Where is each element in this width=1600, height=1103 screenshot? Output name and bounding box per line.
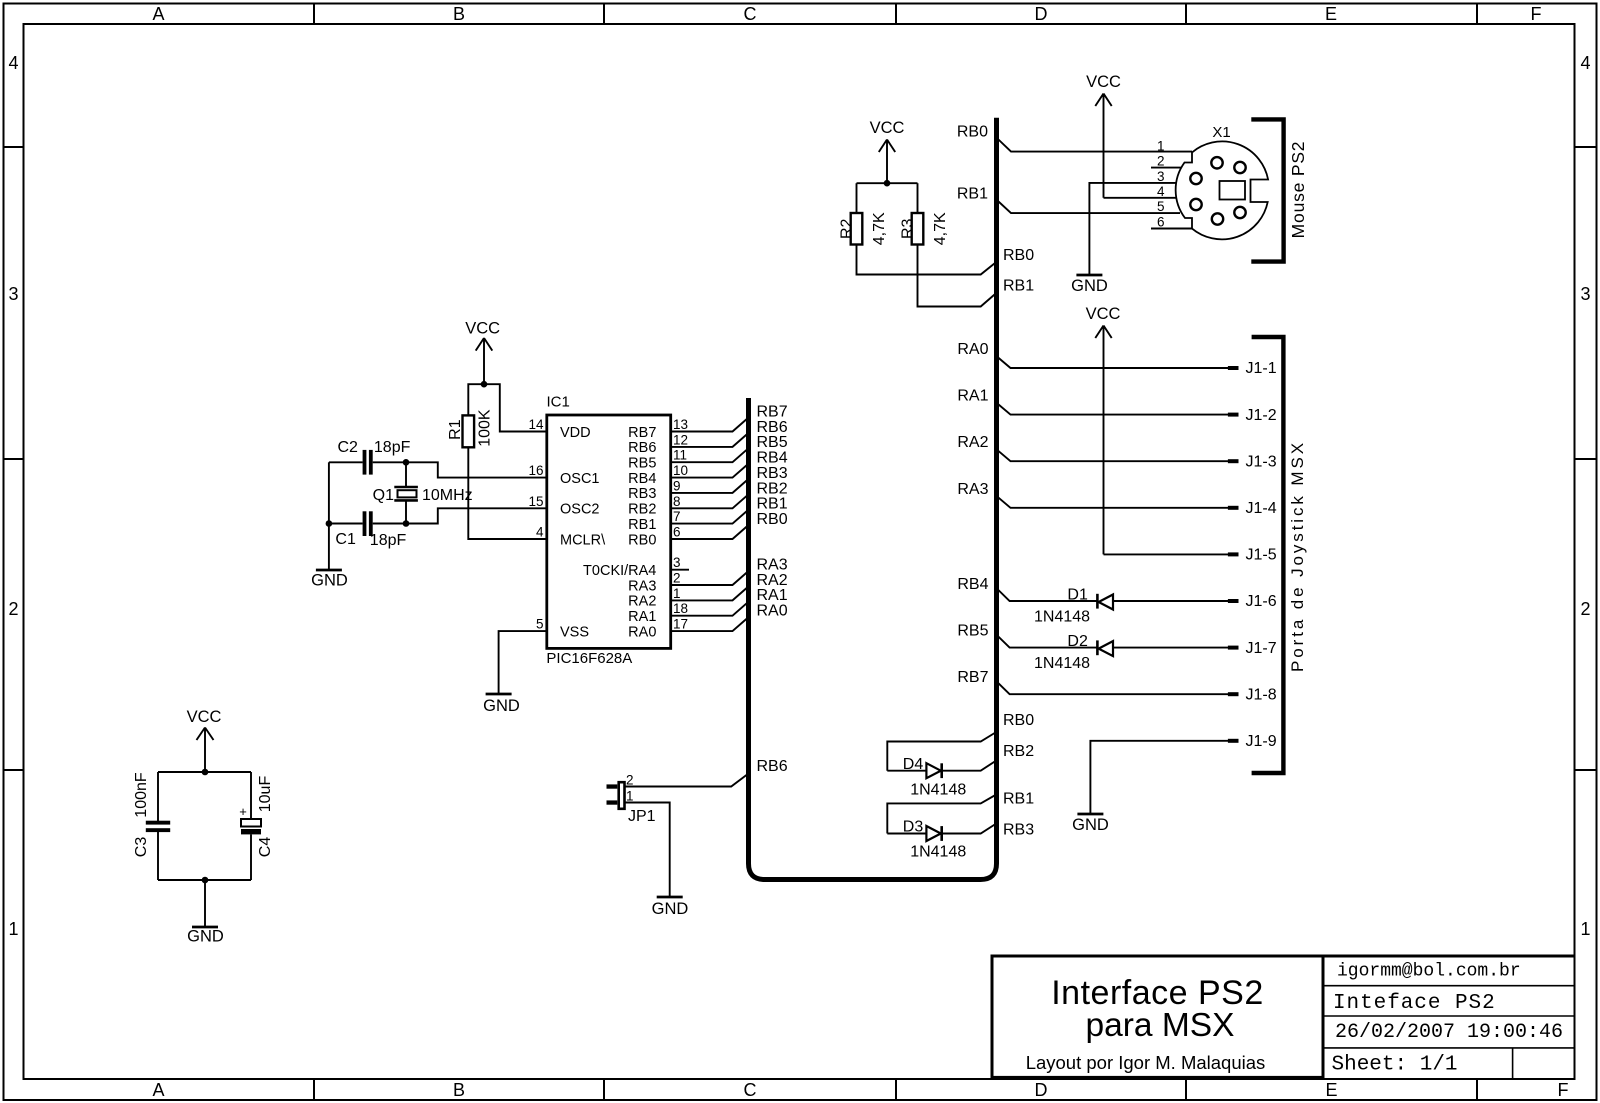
svg-text:F: F xyxy=(1531,4,1542,24)
wire C2 to C1 left vertical xyxy=(328,462,330,523)
svg-text:4: 4 xyxy=(8,53,18,73)
frame row ticks right xyxy=(1575,147,1597,770)
svg-text:D: D xyxy=(1035,4,1048,24)
svg-text:OSC1: OSC1 xyxy=(560,471,600,487)
svg-text:RA1: RA1 xyxy=(628,609,656,625)
svg-text:15: 15 xyxy=(528,494,543,509)
svg-text:C4: C4 xyxy=(257,837,274,858)
svg-text:D4: D4 xyxy=(903,756,924,773)
svg-text:2: 2 xyxy=(673,571,681,586)
wire pin6 RB0 to bus xyxy=(671,525,749,539)
svg-text:igormm@bol.com.br: igormm@bol.com.br xyxy=(1337,962,1521,982)
svg-text:3: 3 xyxy=(1157,169,1165,184)
wire bus to diode D2 anode side xyxy=(996,635,1096,648)
svg-text:5: 5 xyxy=(536,617,544,632)
wire JP1 pin1 to ground xyxy=(625,803,670,898)
svg-text:RA0: RA0 xyxy=(628,624,656,640)
wire C2 left xyxy=(329,461,363,463)
capacitor C4 polarized xyxy=(239,804,261,834)
svg-text:VCC: VCC xyxy=(1086,73,1121,91)
svg-text:8: 8 xyxy=(673,494,681,509)
svg-text:D1: D1 xyxy=(1067,587,1088,604)
svg-text:Porta de Joystick MSX: Porta de Joystick MSX xyxy=(1288,440,1307,672)
svg-text:RB0: RB0 xyxy=(957,124,988,141)
wire pin2 RA3 to bus xyxy=(671,571,749,585)
svg-text:RB5: RB5 xyxy=(957,623,988,640)
IC1 left pin numbers xyxy=(528,417,544,632)
svg-text:GND: GND xyxy=(1071,277,1108,295)
svg-text:16: 16 xyxy=(528,463,543,478)
svg-text:1: 1 xyxy=(626,789,634,804)
svg-text:4,7K: 4,7K xyxy=(871,212,888,245)
diode D1 xyxy=(1097,594,1113,610)
svg-text:RB1: RB1 xyxy=(628,517,656,533)
wire mouse pin3 to ground xyxy=(1089,183,1176,275)
svg-text:RB4: RB4 xyxy=(957,576,988,593)
connector X1 pin holes xyxy=(1190,157,1245,225)
frame column ticks top xyxy=(314,4,1477,25)
svg-text:RA0: RA0 xyxy=(757,603,788,620)
svg-text:R2: R2 xyxy=(838,218,855,239)
node OSC1 junction xyxy=(403,459,410,466)
wire R3 bottom to bus RB1 xyxy=(918,245,997,307)
svg-text:+: + xyxy=(239,804,247,819)
frame row numbers left xyxy=(8,53,18,939)
wire bus RB0 to D4 loop top xyxy=(887,732,996,771)
svg-text:RB4: RB4 xyxy=(628,471,656,487)
svg-text:10: 10 xyxy=(673,463,688,478)
svg-text:2: 2 xyxy=(1580,599,1590,619)
wire VCC to R1 top xyxy=(468,384,484,415)
node C1 left junction xyxy=(326,520,333,527)
svg-text:GND: GND xyxy=(311,572,348,590)
svg-text:100nF: 100nF xyxy=(133,772,150,818)
svg-text:J1-1: J1-1 xyxy=(1246,360,1277,377)
wire VCC to IC pin14 xyxy=(484,384,547,431)
svg-text:26/02/2007 19:00:46: 26/02/2007 19:00:46 xyxy=(1335,1021,1563,1044)
svg-text:J1-9: J1-9 xyxy=(1246,733,1277,750)
svg-text:1N4148: 1N4148 xyxy=(910,843,966,860)
VCC symbol joystick xyxy=(1086,305,1121,554)
svg-text:5: 5 xyxy=(1157,199,1165,214)
ground C1/C2 xyxy=(311,524,348,590)
svg-text:4,7K: 4,7K xyxy=(932,212,949,245)
svg-text:J1-4: J1-4 xyxy=(1246,500,1277,517)
svg-text:RA0: RA0 xyxy=(957,341,988,358)
resistor R1 xyxy=(463,415,475,447)
mouse bracket xyxy=(1251,119,1283,261)
frame row numbers right xyxy=(1580,53,1590,939)
svg-text:VSS: VSS xyxy=(560,624,589,640)
mouse pin numbers 1-6 xyxy=(1157,138,1165,229)
svg-text:1: 1 xyxy=(8,919,18,939)
svg-text:J1-3: J1-3 xyxy=(1246,453,1277,470)
bus wire U-shape xyxy=(749,118,997,880)
svg-text:J1-6: J1-6 xyxy=(1246,593,1277,610)
wire pin7 RB1 to bus xyxy=(671,510,749,524)
svg-text:RB3: RB3 xyxy=(1003,822,1034,839)
svg-text:RB6: RB6 xyxy=(757,758,788,775)
svg-text:RB2: RB2 xyxy=(1003,743,1034,760)
svg-text:RA3: RA3 xyxy=(957,481,988,498)
wire pin8 RB2 to bus xyxy=(671,494,749,508)
wire J1-9 to ground xyxy=(1090,741,1228,814)
svg-text:RB5: RB5 xyxy=(628,456,656,472)
connector X1 mini-DIN outline xyxy=(1176,141,1268,239)
wire pin10 RB4 to bus xyxy=(671,464,749,478)
svg-text:VCC: VCC xyxy=(1086,305,1121,323)
svg-text:PIC16F628A: PIC16F628A xyxy=(546,650,632,667)
svg-text:T0CKI/RA4: T0CKI/RA4 xyxy=(583,563,656,579)
svg-text:9: 9 xyxy=(673,478,681,493)
wire C4 top xyxy=(250,772,252,819)
wire R2 bottom to bus RB0 xyxy=(857,245,997,275)
svg-text:1: 1 xyxy=(1157,138,1165,153)
wire bus to diode D1 anode side xyxy=(996,588,1096,601)
svg-text:3: 3 xyxy=(673,555,681,570)
wire D2 to J1-7 xyxy=(1113,647,1228,649)
svg-text:RB3: RB3 xyxy=(628,486,656,502)
wire pin13 RB7 to bus xyxy=(671,418,749,432)
connector J1 pin labels xyxy=(1246,360,1277,750)
svg-text:6: 6 xyxy=(1157,215,1165,230)
capacitor C2 xyxy=(363,450,373,475)
svg-text:RB1: RB1 xyxy=(1003,791,1034,808)
wire node to OSC2 pin15 xyxy=(406,508,547,523)
IC1 right pin numbers xyxy=(673,417,688,632)
svg-text:MCLR\: MCLR\ xyxy=(560,532,606,548)
joystick bracket xyxy=(1252,337,1284,773)
VCC symbol R2/R3 xyxy=(870,119,905,183)
svg-text:18pF: 18pF xyxy=(370,532,407,549)
svg-text:4: 4 xyxy=(1157,184,1165,199)
svg-text:RB0: RB0 xyxy=(628,532,656,548)
svg-text:RB1: RB1 xyxy=(957,186,988,203)
svg-text:D2: D2 xyxy=(1067,633,1088,650)
wire pin12 RB6 to bus xyxy=(671,433,749,447)
svg-text:A: A xyxy=(152,4,164,24)
wire D3 loop bottom to bus RB3 xyxy=(887,824,996,834)
diode D2 xyxy=(1097,640,1113,656)
svg-text:RB0: RB0 xyxy=(757,511,788,528)
title block row separators xyxy=(1323,986,1575,1048)
connector X1 center key square xyxy=(1220,181,1246,200)
node OSC2 junction xyxy=(403,520,410,527)
node R2/R3 VCC junction xyxy=(884,180,891,187)
svg-text:13: 13 xyxy=(673,417,688,432)
svg-text:GND: GND xyxy=(652,900,689,918)
svg-text:C: C xyxy=(744,1080,757,1100)
svg-text:C2: C2 xyxy=(338,439,359,456)
svg-text:C1: C1 xyxy=(335,531,356,548)
svg-text:2: 2 xyxy=(626,773,634,788)
wire pin1 RA2 to bus xyxy=(671,586,749,600)
wire VCC rail C3/C4 xyxy=(158,771,251,773)
resistor R2 xyxy=(851,213,863,245)
node R1 VCC junction xyxy=(481,381,488,388)
wire C1 left xyxy=(329,523,363,525)
title block sheet-row divider xyxy=(1512,1048,1514,1079)
svg-text:1N4148: 1N4148 xyxy=(1034,608,1090,625)
svg-text:RA2: RA2 xyxy=(957,434,988,451)
svg-text:1: 1 xyxy=(673,586,681,601)
svg-text:VCC: VCC xyxy=(870,119,905,137)
wire C3 bottom xyxy=(157,832,159,880)
wire bus RB1 to D3 loop top xyxy=(887,795,996,834)
svg-text:Mouse PS2: Mouse PS2 xyxy=(1288,141,1308,239)
svg-text:RA3: RA3 xyxy=(628,578,656,594)
svg-text:Layout por Igor M. Malaquias: Layout por Igor M. Malaquias xyxy=(1026,1052,1266,1073)
wire mouse pin6 stub xyxy=(1151,228,1192,230)
svg-text:C: C xyxy=(744,4,757,24)
svg-text:100K: 100K xyxy=(477,409,494,447)
svg-text:VCC: VCC xyxy=(465,319,500,337)
ground JP1 xyxy=(652,897,689,918)
svg-text:RB1: RB1 xyxy=(1003,278,1034,295)
VCC symbol R1 xyxy=(465,319,500,384)
IC1 right pin names xyxy=(583,425,656,641)
svg-text:F: F xyxy=(1558,1080,1569,1100)
svg-text:B: B xyxy=(453,4,465,24)
svg-text:12: 12 xyxy=(673,432,688,447)
svg-text:RA1: RA1 xyxy=(957,388,988,405)
svg-text:Sheet: 1/1: Sheet: 1/1 xyxy=(1332,1054,1458,1077)
ground mouse xyxy=(1071,275,1108,295)
svg-text:1N4148: 1N4148 xyxy=(1034,655,1090,672)
ground VSS xyxy=(483,694,520,715)
wire R3 top xyxy=(917,183,919,213)
svg-text:RB2: RB2 xyxy=(628,502,656,518)
svg-text:4: 4 xyxy=(1580,53,1590,73)
wire pin9 RB3 to bus xyxy=(671,479,749,493)
wire pin3 stub xyxy=(671,569,689,571)
wire C2 right to node xyxy=(373,461,406,463)
wire bus to mouse pin5 RB1 xyxy=(996,200,1180,214)
svg-text:X1: X1 xyxy=(1212,124,1230,141)
svg-text:VDD: VDD xyxy=(560,425,591,441)
VCC symbol C3/C4 xyxy=(187,708,222,772)
svg-text:R1: R1 xyxy=(447,419,464,440)
resistor R3 xyxy=(912,213,924,245)
wire VCC to J1-5 xyxy=(1104,553,1229,555)
svg-text:A: A xyxy=(152,1080,164,1100)
svg-text:Inteface PS2: Inteface PS2 xyxy=(1333,992,1496,1015)
node GND C3/C4 junction xyxy=(202,877,209,884)
diode D3 xyxy=(926,826,941,841)
svg-text:2: 2 xyxy=(8,599,18,619)
wire bus to J1-4 RA3 xyxy=(996,496,1228,508)
svg-text:18pF: 18pF xyxy=(374,439,411,456)
wire VCC rail R2/R3 xyxy=(857,182,918,184)
wire mouse pin4 to VCC xyxy=(1104,197,1181,199)
svg-text:14: 14 xyxy=(528,417,544,432)
wire D4 loop bottom to bus RB2 xyxy=(887,761,996,771)
svg-text:E: E xyxy=(1325,1080,1337,1100)
wire pin17 RA0 to bus xyxy=(671,617,749,631)
wire bus to J1-2 RA1 xyxy=(996,403,1228,415)
connector J1 pads xyxy=(1228,366,1239,743)
wire R1 bottom to MCLR pin4 xyxy=(468,447,547,539)
node VCC C3/C4 junction xyxy=(202,769,209,776)
svg-text:D: D xyxy=(1035,1080,1048,1100)
svg-text:17: 17 xyxy=(673,617,688,632)
svg-text:RB7: RB7 xyxy=(957,669,988,686)
svg-text:B: B xyxy=(453,1080,465,1100)
crystal Q1 xyxy=(394,462,418,523)
diode D4 xyxy=(926,763,941,778)
wire pin11 RB5 to bus xyxy=(671,448,749,462)
VCC symbol mouse xyxy=(1086,73,1121,198)
wire bus to J1-3 RA2 xyxy=(996,449,1228,461)
svg-text:para MSX: para MSX xyxy=(1086,1007,1235,1044)
wire C4 bottom xyxy=(250,834,252,880)
svg-text:3: 3 xyxy=(1580,284,1590,304)
svg-text:7: 7 xyxy=(673,509,681,524)
svg-text:1: 1 xyxy=(1580,919,1590,939)
title block box xyxy=(992,956,1323,1077)
svg-text:OSC2: OSC2 xyxy=(560,502,600,518)
svg-text:IC1: IC1 xyxy=(547,394,570,411)
svg-text:R3: R3 xyxy=(899,218,916,239)
frame column letters top xyxy=(152,4,1541,24)
svg-text:3: 3 xyxy=(8,284,18,304)
svg-text:1N4148: 1N4148 xyxy=(910,782,966,799)
IC IC1 PIC16F628A body xyxy=(547,415,671,648)
frame row ticks left xyxy=(4,147,24,770)
svg-text:2: 2 xyxy=(1157,154,1165,169)
svg-text:RB7: RB7 xyxy=(628,425,656,441)
title block top line right section xyxy=(1323,955,1575,958)
svg-text:Q1: Q1 xyxy=(373,487,394,504)
svg-text:10MHz: 10MHz xyxy=(422,487,473,504)
svg-text:4: 4 xyxy=(536,525,544,540)
capacitor C1 xyxy=(363,511,373,536)
wire bus to J1-1 RA0 xyxy=(996,356,1228,368)
svg-text:VCC: VCC xyxy=(187,708,222,726)
svg-text:GND: GND xyxy=(187,928,224,946)
svg-text:E: E xyxy=(1325,4,1337,24)
jumper JP1 xyxy=(607,782,625,809)
svg-text:GND: GND xyxy=(1072,816,1109,834)
wire D1 to J1-6 xyxy=(1113,600,1228,602)
svg-text:D3: D3 xyxy=(903,819,924,836)
frame column ticks bottom xyxy=(314,1079,1477,1100)
svg-text:RB0: RB0 xyxy=(1003,712,1034,729)
wire bus to mouse pin1 RB0 xyxy=(996,138,1192,152)
wire GND rail C3/C4 xyxy=(158,879,251,881)
svg-text:RB0: RB0 xyxy=(1003,247,1034,264)
capacitor C3 xyxy=(146,821,170,832)
ground C3/C4 xyxy=(187,880,224,946)
svg-text:18: 18 xyxy=(673,601,688,616)
svg-text:RA2: RA2 xyxy=(628,594,656,610)
svg-text:C3: C3 xyxy=(133,837,150,858)
wire C3 top xyxy=(157,772,159,821)
svg-text:J1-7: J1-7 xyxy=(1246,640,1277,657)
svg-text:J1-8: J1-8 xyxy=(1246,686,1277,703)
svg-text:J1-5: J1-5 xyxy=(1246,547,1277,564)
frame column letters bottom xyxy=(152,1080,1568,1100)
wire R2 top xyxy=(856,183,858,213)
svg-text:11: 11 xyxy=(673,448,687,463)
wire JP1 pin2 to bus RB6 xyxy=(625,774,749,787)
svg-text:RB6: RB6 xyxy=(628,440,656,456)
wire C1 right to node xyxy=(373,523,406,525)
svg-text:J1-2: J1-2 xyxy=(1246,407,1277,424)
IC1 left pin names xyxy=(560,425,606,641)
wire IC pin5 VSS to ground xyxy=(499,631,547,694)
svg-text:GND: GND xyxy=(483,697,520,715)
svg-text:JP1: JP1 xyxy=(628,808,656,825)
wire node to OSC1 pin16 xyxy=(406,462,547,477)
wire pin18 RA1 to bus xyxy=(671,602,749,616)
wire mouse pin2 stub xyxy=(1151,167,1181,169)
svg-text:10uF: 10uF xyxy=(257,776,274,813)
ground joystick xyxy=(1072,814,1109,834)
wire bus to J1-8 RB7 xyxy=(996,681,1228,694)
svg-text:6: 6 xyxy=(673,525,681,540)
